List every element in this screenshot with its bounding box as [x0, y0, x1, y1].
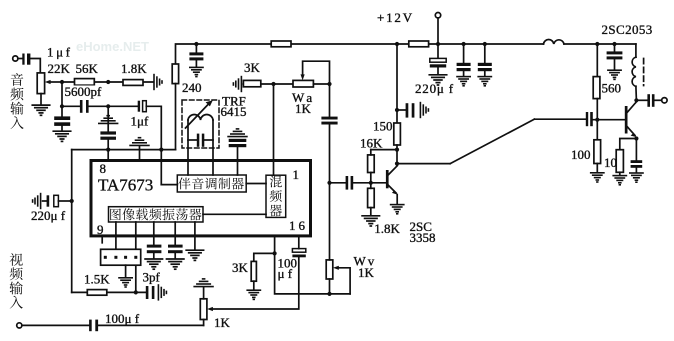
node Q2 base: [595, 118, 599, 122]
oscillator pin down 3: [153, 222, 155, 245]
bypass cap 3 on bus: [484, 44, 486, 63]
Wv wiper wire: [338, 268, 350, 294]
bypass cap on bus at Q2: [614, 44, 616, 51]
16K stubs: [370, 150, 372, 155]
sideways ground after R3: [154, 75, 162, 90]
ground below 3K: [247, 290, 260, 299]
Wa right terminal wire: [313, 83, 329, 85]
svg-text:560: 560: [602, 81, 622, 96]
Wv bottom stub: [329, 279, 331, 294]
pin16 stub to 100uF: [298, 236, 300, 249]
node at x62: [60, 80, 64, 84]
resistor on bus (left): [271, 41, 291, 47]
Wa wiper arrow down: [301, 74, 305, 80]
svg-text:16K: 16K: [360, 136, 383, 151]
3K elbow wire: [254, 253, 275, 261]
IC box: [91, 161, 311, 236]
Wa pot box: [293, 80, 313, 87]
label video input (vertical): [9, 253, 22, 266]
wire sound modulator to mixer: [246, 183, 266, 185]
video pot 1K: [200, 299, 207, 320]
svg-text:1K: 1K: [295, 101, 312, 116]
tank capacitor: [188, 139, 197, 141]
diagonal wire: [450, 119, 534, 163]
ground below cap2: [457, 77, 470, 86]
coil to collector: [635, 86, 638, 100]
potentiometer RP1 22K audio level: [37, 73, 44, 94]
pin cap with inverted ground at 237: [228, 129, 247, 137]
x330 rail lower: [329, 125, 331, 260]
ground below cap3: [478, 77, 491, 86]
label sound modulator: [178, 178, 190, 190]
bypass capacitor at 196: [195, 44, 197, 52]
resistor 100: [594, 140, 601, 164]
resistor 16K: [368, 155, 375, 173]
svg-text:3K: 3K: [232, 260, 249, 275]
bus corner down to output coil: [635, 44, 637, 57]
Q1 emitter lead with arrow: [389, 186, 396, 193]
wire 240 down to pin8 wire: [175, 84, 177, 150]
capacitor 220uF on bus: [437, 44, 439, 58]
top bus wire left part: [176, 44, 544, 64]
svg-text:10: 10: [604, 155, 617, 170]
resistor 560: [593, 77, 600, 99]
transistor Q2 2SC2053 base bar: [625, 106, 628, 134]
svg-text:TA7673: TA7673: [98, 176, 153, 195]
capacitor 3pf: [146, 286, 155, 299]
Q1 collector lead: [389, 166, 398, 175]
svg-text:1.8K: 1.8K: [121, 61, 147, 76]
transistor Q1 2SC3358 base bar: [386, 170, 389, 188]
node on bus at +12V: [436, 42, 440, 46]
mixer top pin wire up to 3K/Wa node: [273, 84, 275, 175]
oscillator pin down 5: [194, 222, 196, 249]
svg-text:8: 8: [100, 161, 107, 176]
output coil (vertical): [632, 57, 636, 86]
wire 5600pf to 1uf cap: [89, 105, 138, 107]
inverted ground on stem: [99, 116, 118, 124]
variable inductor coil: [188, 114, 213, 120]
node dots on pin8 wire: [106, 148, 110, 152]
node Wv bottom: [327, 292, 331, 296]
wire 560 to base node: [596, 99, 598, 140]
capacitor 5600pf: [80, 100, 89, 113]
wire oscillator to mixer: [203, 213, 266, 215]
resistor 10: [616, 150, 623, 173]
wire 5600pf branch: [62, 105, 80, 107]
RP1 ground stub: [40, 94, 42, 105]
Q2 emitter lead with arrow: [628, 127, 636, 135]
svg-text:100: 100: [571, 147, 591, 162]
resistor on bus (right): [409, 41, 429, 47]
label picture carrier oscillator: [110, 209, 121, 221]
node on bus at 397: [395, 42, 399, 46]
emitter elbow to 10 ohm: [620, 139, 637, 150]
svg-text:+12V: +12V: [377, 10, 414, 25]
inverted ground + stub at x139 into IC top: [130, 138, 149, 146]
ground below 10: [613, 176, 626, 185]
x330 rail upper: [329, 84, 331, 117]
video input terminal: [17, 323, 22, 328]
node on bus at 196: [194, 42, 198, 46]
coil core dashed line: [643, 59, 645, 86]
svg-text:μ f: μ f: [278, 266, 293, 281]
audio main wire: [62, 81, 153, 83]
collector output wire: [397, 163, 450, 165]
pin stub into box at 237: [237, 162, 239, 175]
1.8K stubs: [370, 183, 372, 189]
svg-text:3358: 3358: [410, 230, 436, 245]
node filter pin4 / 1.5K wire: [134, 290, 138, 294]
node bus cap: [612, 42, 616, 46]
svg-text:1μf: 1μf: [131, 114, 149, 129]
pin 8 stub into IC: [107, 150, 109, 161]
inverted ground above video pot: [194, 279, 213, 287]
wiper wire right and up to 100uF: [212, 257, 299, 309]
ground below capacitor: [53, 131, 70, 141]
Wa wiper elbow: [303, 61, 330, 84]
1.5K feedback wire: [72, 291, 146, 293]
Wv pot 1K: [326, 260, 333, 279]
output coupling cap: [647, 94, 654, 107]
wire 1uf cap to pin8 drop: [146, 106, 161, 184]
label mixer (vertical): [270, 176, 282, 188]
coil right pin down to IC sound modulator: [212, 120, 214, 175]
filter component box with 4 pins: [101, 249, 141, 265]
ground below RP1: [32, 105, 49, 115]
svg-text:1.8K: 1.8K: [374, 221, 400, 236]
10 ground stub: [619, 172, 621, 175]
100 ground stub: [596, 164, 598, 173]
pot top stub to inverted ground: [203, 287, 205, 298]
wire cap to video pot: [98, 324, 204, 326]
svg-text:1K: 1K: [214, 315, 231, 330]
16K top elbow to collector rail: [371, 149, 397, 151]
oscillator pin down 4: [174, 222, 176, 245]
resistor 3K: [251, 261, 256, 281]
svg-text:1K: 1K: [358, 265, 375, 280]
IC bottom pin wire to Wv: [275, 236, 351, 294]
coupling cap to Q1 base: [330, 182, 346, 184]
Q1 emitter stub: [396, 195, 398, 204]
node pin1 coupling: [327, 181, 331, 185]
output wire: [636, 99, 647, 101]
capacitor 100uF video coupling: [89, 320, 98, 332]
node mixer pin: [271, 82, 275, 86]
oscillator pin down 1: [115, 222, 117, 249]
svg-text:eHome.NET: eHome.NET: [76, 39, 149, 54]
node Q1 base: [369, 181, 373, 185]
node Wa right: [327, 82, 331, 86]
long left vertical wire down: [71, 150, 73, 293]
resistor R2 56K: [75, 79, 95, 86]
sideways ground left of 3K top: [233, 77, 241, 92]
RP1 wiper arrow: [45, 80, 51, 84]
svg-text:220μ f: 220μ f: [415, 81, 454, 96]
node Q2 emitter: [634, 136, 638, 140]
adjuster arrow: [186, 103, 210, 128]
capacitor 220uF (electrolytic): [43, 200, 47, 202]
picture carrier oscillator box: [109, 207, 204, 222]
top bus wire right part: [564, 43, 636, 45]
coupling cap to Q2 base: [586, 112, 593, 126]
svg-text:56K: 56K: [76, 61, 99, 76]
ground below filter: [119, 278, 132, 287]
capacitor at x108: [100, 131, 116, 139]
ground below: [190, 67, 203, 76]
pin 8 horizontal wire: [72, 149, 176, 151]
node at 220uF tap: [70, 199, 74, 203]
svg-text:5600pf: 5600pf: [65, 84, 103, 99]
wire inside IC to sound modulator box: [161, 184, 177, 186]
node at bypass tap: [395, 108, 399, 112]
svg-text:220μ f: 220μ f: [31, 208, 66, 223]
node 16K elbow: [395, 148, 399, 152]
+12V terminal: [435, 13, 440, 18]
node x108 y106: [106, 104, 110, 108]
svg-text:3pf: 3pf: [143, 270, 161, 285]
svg-text:1: 1: [293, 167, 300, 182]
ground below 1.8K: [362, 216, 379, 226]
resistor 150: [394, 123, 401, 145]
node at x108: [106, 80, 110, 84]
svg-text:2SC2053: 2SC2053: [602, 22, 653, 37]
wire node x62 down: [61, 82, 63, 116]
label 5600pf on white box: [64, 86, 105, 99]
resistor 3K top: [243, 80, 260, 86]
node Q2 collector / output: [634, 98, 638, 102]
svg-text:16: 16: [289, 218, 308, 233]
resistor R3 1.8K: [123, 80, 143, 86]
svg-text:6415: 6415: [221, 104, 247, 119]
sideways ground after 3pf: [158, 285, 166, 300]
filter pin dots: [104, 256, 138, 259]
capacitor C1 1uF coupling: [22, 54, 30, 65]
svg-text:1.5K: 1.5K: [84, 272, 110, 287]
ground below: [608, 70, 621, 79]
resistor R 240 vertical: [172, 64, 178, 84]
node x62 y106: [60, 104, 64, 108]
Q2 collector lead: [628, 102, 637, 112]
Wv wiper arrow: [333, 266, 339, 270]
capacitor 100uF at pin16 (electrolytic): [292, 249, 305, 253]
emitter cap down: [635, 139, 637, 161]
mixer box: [266, 175, 286, 217]
sound modulator box: [177, 175, 246, 192]
dashed box TRF6415: [182, 100, 219, 148]
ground below cap A: [145, 259, 162, 269]
label audio input (vertical): [11, 73, 24, 86]
bypass cap B below IC: [168, 245, 183, 254]
svg-text:240: 240: [182, 80, 202, 95]
ground below emitter cap: [630, 173, 643, 182]
ground pin below IC: [186, 250, 203, 260]
filter ground pin: [125, 265, 127, 277]
resistor 1.8K: [368, 188, 375, 207]
sideways ground left of 220uF: [33, 194, 41, 209]
wire bus to 560: [596, 44, 598, 77]
svg-text:22K: 22K: [48, 61, 71, 76]
node 3K tap: [273, 251, 277, 255]
svg-text:3K: 3K: [244, 60, 261, 75]
output terminal: [662, 98, 667, 103]
bypass stack at x108: stem: [107, 106, 109, 131]
series capacitor on rail: [321, 117, 337, 125]
ground below 220uF: [429, 75, 446, 85]
ground below Q1 emitter: [391, 205, 404, 214]
svg-text:150: 150: [373, 119, 393, 134]
svg-text:9: 9: [97, 222, 104, 237]
node 560 top on bus: [595, 42, 599, 46]
wire to 3K: [243, 83, 293, 85]
bypass cap at 397/110: [397, 109, 406, 111]
sideways ground after bypass cap: [420, 103, 428, 118]
ground below 100: [591, 173, 604, 182]
pot bottom stub: [203, 320, 205, 326]
svg-text:100μ f: 100μ f: [105, 311, 140, 326]
coil left pin down to IC sound modulator: [187, 120, 189, 175]
rail below 150: [396, 145, 398, 164]
capacitor C 1uF (electrolytic): [138, 101, 140, 112]
collector rail from bus: [396, 44, 398, 123]
capacitor below x62: [54, 116, 70, 126]
ground below cap B: [167, 259, 184, 269]
audio input terminal: [13, 56, 18, 61]
video pot wiper arrow: [207, 307, 213, 311]
video input wire: [22, 324, 89, 326]
pin 9 stub: [101, 237, 103, 243]
wire to Q2 coupling cap: [534, 118, 585, 120]
inductor L1 on bus: [544, 40, 565, 44]
wire C1 to pot: [30, 59, 40, 73]
node Q1 collector: [395, 162, 399, 166]
resistor 1.5K: [87, 290, 107, 296]
3K ground stub: [253, 281, 255, 289]
svg-text:1μf: 1μf: [47, 45, 73, 60]
bypass cap 2 on bus: [463, 44, 465, 63]
oscillator pin down 2 (to filter and 1.5K): [135, 222, 137, 292]
wire terminal to C1: [18, 58, 23, 60]
bypass cap A below IC: [147, 245, 162, 254]
